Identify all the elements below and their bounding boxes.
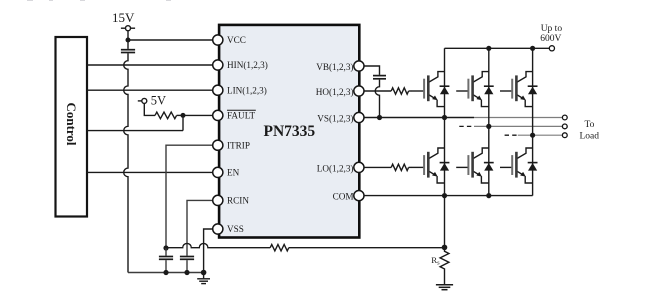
wire: C2 to ground rail bbox=[165, 260, 167, 272]
svg-text:EN: EN bbox=[227, 168, 240, 178]
diode D4 bbox=[440, 163, 450, 171]
transistor Q4 (low-side phase 1) bbox=[412, 148, 445, 183]
pin VS bbox=[354, 112, 364, 122]
capacitor C3 bbox=[180, 257, 194, 260]
diode D1 bbox=[440, 86, 450, 94]
node: phase 3 leg junction bbox=[530, 133, 535, 138]
diode D6 bbox=[528, 163, 538, 171]
wire: 5V terminal to resistor R1 bbox=[144, 103, 155, 115]
node: phase 2 leg junction bbox=[486, 124, 491, 129]
IC U1 PN7335 body bbox=[219, 25, 359, 238]
svg-text:HO(1,2,3): HO(1,2,3) bbox=[316, 87, 354, 97]
svg-text:Control: Control bbox=[64, 102, 79, 145]
svg-text:PN7335: PN7335 bbox=[264, 123, 316, 140]
wire: phase 3 output line bbox=[518, 134, 563, 136]
control block bbox=[56, 37, 88, 217]
wire: C4 to VS node with hop over HO wire bbox=[375, 80, 379, 118]
node: top rail leg2 junction bbox=[486, 46, 491, 51]
wire: VB pin to bootstrap capacitor C4 bbox=[364, 66, 379, 75]
svg-text:VB(1,2,3): VB(1,2,3) bbox=[316, 62, 353, 72]
wire: sense node to R2 with hops over RCIN and VSS drops bbox=[166, 243, 270, 247]
resistor RG1 (high-side gate) bbox=[391, 88, 408, 94]
pin HO bbox=[354, 86, 364, 96]
svg-text:COM: COM bbox=[333, 192, 354, 202]
svg-text:VS(1,2,3): VS(1,2,3) bbox=[317, 114, 353, 124]
svg-text:Rs: Rs bbox=[431, 255, 440, 266]
node: C2 ground junction bbox=[163, 270, 168, 275]
wire: DC bus top rail bbox=[445, 47, 550, 49]
wire: inverter leg 3 bbox=[532, 48, 534, 195]
node: bootstrap to VS junction bbox=[377, 115, 382, 120]
wire: C1 down to ground rail with crossover hops bbox=[124, 53, 128, 272]
wire: phase 2 output line bbox=[474, 125, 562, 127]
pin FAULT bbox=[213, 110, 223, 120]
wire: inverter leg 1 bbox=[444, 48, 446, 247]
pin EN bbox=[213, 167, 223, 177]
wire: RCIN pin down to capacitor C3 bbox=[187, 200, 213, 255]
pin COM bbox=[354, 191, 364, 201]
wire: Control to EN pin bbox=[87, 171, 213, 173]
wire: Control to HIN pin bbox=[87, 64, 213, 66]
terminal: load phase 3 bbox=[562, 133, 567, 138]
pin VB bbox=[354, 61, 364, 71]
terminal: 600V bus bbox=[549, 46, 554, 51]
page artifact marks (cropped text above) bbox=[27, 0, 171, 1]
wire: phase 2 dashed stub bbox=[459, 125, 474, 127]
15V terminal bbox=[121, 26, 135, 31]
pin LIN bbox=[213, 85, 223, 95]
wire: R2 to Rs top node bbox=[289, 247, 445, 249]
node: top rail leg3 junction bbox=[530, 46, 535, 51]
diode D3 bbox=[528, 86, 538, 94]
svg-text:VSS: VSS bbox=[227, 224, 244, 234]
ground symbol GND1 bbox=[197, 273, 210, 284]
wire: R1 to FAULT node bbox=[177, 114, 183, 116]
svg-text:ITRIP: ITRIP bbox=[227, 140, 250, 150]
wire: phase 3 dashed stub bbox=[505, 134, 518, 136]
wire: LO pin to gate resistor RG2 bbox=[364, 166, 391, 168]
node: C3 ground junction bbox=[184, 270, 189, 275]
svg-text:LIN(1,2,3): LIN(1,2,3) bbox=[227, 85, 267, 95]
svg-text:FAULT: FAULT bbox=[227, 111, 255, 121]
capacitor C1 (VCC decoupling) bbox=[121, 50, 135, 53]
pin VSS bbox=[213, 224, 223, 234]
pin LO bbox=[354, 162, 364, 172]
transistor Q2 (high-side phase 2) bbox=[456, 72, 489, 107]
node: VCC junction bbox=[126, 38, 131, 43]
transistor Q1 (high-side phase 1) bbox=[412, 72, 445, 107]
resistor RG2 (low-side gate) bbox=[391, 164, 408, 170]
node: COM rail leg2 junction bbox=[486, 193, 491, 198]
wire: inverter leg 2 bbox=[488, 48, 490, 195]
transistor Q6 (low-side phase 3) bbox=[500, 148, 533, 183]
node: FAULT junction bbox=[181, 113, 186, 118]
svg-text:To: To bbox=[585, 120, 595, 130]
resistor R2 (ITRIP series) bbox=[270, 245, 289, 251]
svg-text:5V: 5V bbox=[151, 93, 166, 107]
svg-text:RCIN: RCIN bbox=[227, 196, 249, 206]
resistor R1 (FAULT pull-up) bbox=[155, 112, 177, 119]
ground symbol GND2 bbox=[436, 285, 453, 290]
wire: VS rail bbox=[364, 117, 474, 119]
resistor Rs (current sense) bbox=[440, 247, 449, 284]
node: Rs top junction bbox=[442, 245, 448, 251]
node: ITRIP sense junction bbox=[163, 245, 168, 250]
wire: phase 1 output line bbox=[474, 117, 562, 119]
wire: FAULT node to FAULT pin bbox=[183, 114, 213, 116]
wire: RG1 to Q1 gate bbox=[409, 90, 412, 92]
wire: VSS pin to ground bbox=[204, 229, 213, 273]
terminal: load phase 1 bbox=[562, 115, 567, 120]
terminal: load phase 2 bbox=[562, 124, 567, 129]
wire: RG2 to Q4 gate bbox=[409, 166, 412, 168]
pin HIN bbox=[213, 60, 223, 70]
wire: COM rail bbox=[364, 195, 532, 197]
svg-text:VCC: VCC bbox=[227, 35, 246, 45]
wire: sense node to capacitor C2 bbox=[165, 248, 167, 256]
transistor Q5 (low-side phase 2) bbox=[456, 148, 489, 183]
diode D5 bbox=[484, 163, 494, 171]
wire: HO pin to gate resistor RG1 bbox=[364, 90, 391, 92]
wire: Control to LIN pin bbox=[87, 89, 213, 91]
svg-text:HIN(1,2,3): HIN(1,2,3) bbox=[227, 60, 268, 70]
svg-text:15V: 15V bbox=[112, 10, 135, 25]
svg-text:Load: Load bbox=[580, 131, 600, 141]
node: COM rail leg1 junction bbox=[442, 193, 447, 198]
capacitor C2 bbox=[159, 257, 173, 260]
wire: ITRIP pin to sense column bbox=[166, 145, 213, 248]
ground rail (bottom) bbox=[128, 272, 204, 274]
5V terminal bbox=[138, 98, 147, 103]
svg-text:LO(1,2,3): LO(1,2,3) bbox=[317, 163, 354, 173]
wire: Control to FAULT node (horizontal) bbox=[87, 130, 183, 132]
wire: 15V terminal down to C1 bbox=[127, 31, 129, 49]
diode D2 bbox=[484, 86, 494, 94]
pin ITRIP bbox=[213, 140, 223, 150]
pin VCC bbox=[213, 35, 223, 45]
svg-text:600V: 600V bbox=[540, 34, 561, 44]
node: VSS ground junction bbox=[201, 270, 207, 276]
capacitor C4 (bootstrap) bbox=[373, 76, 386, 79]
pin RCIN bbox=[213, 195, 223, 205]
svg-text:Up to: Up to bbox=[541, 24, 563, 34]
wire: VCC node to VCC pin bbox=[128, 39, 213, 41]
node: VS rail leg1 junction bbox=[442, 115, 447, 120]
wire: FAULT node riser bbox=[182, 115, 184, 130]
transistor Q3 (high-side phase 3) bbox=[500, 72, 533, 107]
wire: C3 to ground rail bbox=[186, 260, 188, 272]
